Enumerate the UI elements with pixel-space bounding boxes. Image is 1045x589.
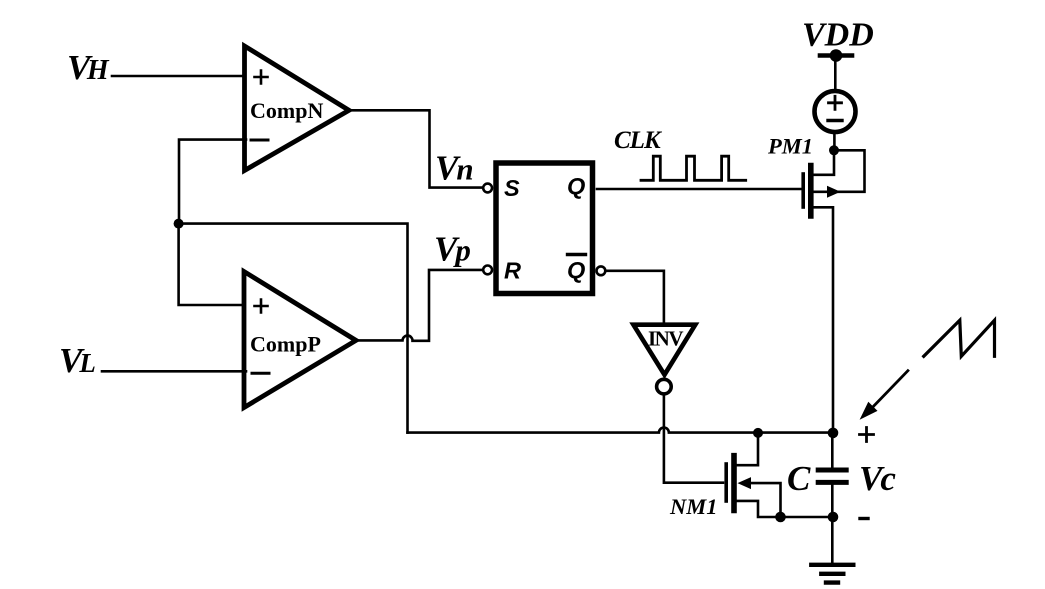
wire CompP output to R input with hop over feedback line [356, 270, 483, 341]
wire Qbar output to INV input [605, 271, 664, 323]
inverter INV [633, 325, 695, 375]
annotation arrow [860, 371, 908, 420]
wire CompN output to S input [349, 110, 483, 187]
wire feedback horizontal run to vertical drop [179, 224, 408, 433]
comparator CompP [244, 272, 356, 408]
svg-text:CompN: CompN [250, 98, 323, 123]
wire VL to CompP inverting input [102, 370, 246, 373]
svg-text:Vc: Vc [859, 459, 896, 498]
wire INV output to NM1 gate [664, 394, 723, 483]
sawtooth waveform annotation [924, 320, 995, 356]
svg-text:Vp: Vp [434, 230, 471, 269]
wire VH to CompN noninverting input [112, 75, 246, 78]
Qbar output bubble [597, 266, 606, 275]
current source I1 [815, 91, 856, 132]
svg-text:C: C [787, 459, 811, 498]
R input bubble [483, 266, 492, 275]
INV output bubble [657, 379, 672, 394]
capacitor C [818, 433, 846, 517]
comparator CompN [245, 46, 350, 171]
junction dot NM1 bulk-source [775, 512, 786, 523]
svg-text:Q: Q [567, 173, 585, 199]
CLK pulse waveform [641, 156, 746, 180]
junction dot capacitor top [828, 428, 839, 439]
VDD rail symbol [820, 49, 852, 62]
plus polarity mark [860, 428, 874, 442]
svg-text:VDD: VDD [802, 17, 874, 54]
SR latch U1 [496, 163, 593, 294]
wire Q output to PM1 gate [597, 188, 801, 191]
S input bubble [483, 184, 492, 193]
wire current source to PM1 node [833, 132, 836, 150]
wire capacitor to ground [831, 517, 834, 564]
svg-text:CLK: CLK [614, 127, 663, 154]
svg-text:R: R [504, 258, 521, 284]
pin label Qbar [567, 255, 586, 284]
junction dot NM1 drain [753, 428, 763, 438]
transistor PM1 [803, 150, 864, 432]
svg-text:PM1: PM1 [767, 134, 813, 159]
svg-text:INV: INV [648, 327, 683, 351]
svg-text:S: S [504, 175, 520, 201]
wire VDD to current source [834, 57, 837, 91]
svg-text:CompP: CompP [250, 332, 321, 357]
wire feedback to CompN inverting input [179, 140, 246, 224]
junction dot capacitor bottom [828, 512, 839, 523]
junction node comparator inputs [174, 219, 184, 229]
junction dot PM1 source node [829, 145, 839, 155]
transistor NM1 [726, 433, 833, 517]
svg-text:VL: VL [59, 341, 96, 380]
svg-text:VH: VH [67, 48, 110, 87]
svg-text:NM1: NM1 [669, 494, 718, 519]
svg-text:Vn: Vn [435, 149, 474, 188]
minus polarity mark [860, 517, 868, 520]
ground [811, 565, 853, 583]
wire junction to CompP noninverting input [179, 224, 246, 305]
svg-text:Q: Q [567, 257, 585, 283]
wire feedback bottom run to capacitor node with hop over INV output [408, 428, 834, 433]
